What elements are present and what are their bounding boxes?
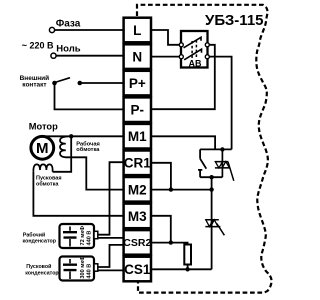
terminal CR1 [124,151,151,176]
wire cap2 to CSR2 [98,245,124,267]
wire Фаза to L [55,29,124,31]
capacitor C1 (run) box [60,224,98,248]
wire starting coil to M1 junction [53,136,72,172]
terminal M1 [124,124,151,149]
wire M1 motor [42,135,123,137]
svg-text:Рабочий: Рабочий [23,231,45,238]
wire breaker down right [209,57,232,150]
wire contact down to P- [55,85,124,109]
wire top bar of contact/triac [200,148,232,150]
junction: resistor bottom on CS1 wire [185,267,189,271]
dashed enclosure border [137,5,272,293]
svg-text:контакт: контакт [22,81,46,88]
working winding coil [60,136,68,157]
svg-text:M1: M1 [128,129,147,144]
svg-text:L: L [133,23,141,38]
wire bottom bar of contact/triac [200,176,222,178]
wire cap1 to CR1 [98,162,124,235]
capacitor C2 (start) box [60,256,98,281]
junction dot M1/coil [69,134,73,138]
wire L to breaker [151,30,180,45]
wire M2 to triacs [151,189,212,191]
svg-text:CSR2: CSR2 [123,237,151,249]
breaker terminals [179,43,183,47]
node: Фаза terminal circle [49,27,54,32]
svg-text:M3: M3 [128,209,147,224]
breaker AB box [179,31,209,69]
svg-text:Мотор: Мотор [29,122,58,132]
motor M circle [31,136,54,159]
terminal M2 [124,177,151,202]
wire CSR2 to resistor [151,243,188,245]
junction: triac VS1 anode node [220,147,224,151]
terminal CSR2 [124,230,151,255]
svg-text:M2: M2 [128,182,147,197]
wire CR1 to M2 junction [151,163,171,190]
svg-text:Пусковой: Пусковой [26,263,51,270]
wire breaker to P- [151,45,215,109]
wire cap2 to CS1 [95,269,124,271]
external contact switch [52,78,82,86]
junction: CR1 branch on M2 wire [169,187,173,191]
svg-text:УБЗ-115: УБЗ-115 [205,12,264,29]
svg-text:АВ: АВ [189,59,202,69]
svg-text:N: N [132,50,142,65]
terminal N [124,44,151,69]
svg-text:конденсатор: конденсатор [23,239,57,245]
terminal block boxes [124,18,151,282]
svg-text:Фаза: Фаза [56,18,81,29]
node: Ноль terminal circle [51,53,56,58]
terminal P+ [124,71,151,96]
wire resistor bottom [187,265,189,270]
svg-text:CS1: CS1 [124,262,151,277]
terminal CS1 [124,257,151,282]
triac VS1 (upper) [215,149,234,180]
svg-text:72 мкФ: 72 мкФ [80,226,86,246]
svg-text:M: M [36,140,49,157]
resistor R1 [184,245,191,265]
svg-text:300 мкФ: 300 мкФ [80,256,86,279]
svg-text:CR1: CR1 [124,156,151,171]
wire Ноль to N [56,55,124,57]
starting winding coil [33,164,52,171]
svg-text:конденсатор: конденсатор [25,270,59,276]
wire CS1 to lower triac bottom [151,268,212,270]
svg-text:440 В: 440 В [86,231,92,246]
svg-text:~ 220 В: ~ 220 В [22,41,54,51]
breaker linkage dashes [192,40,196,58]
svg-text:обмотка: обмотка [36,180,59,187]
triac VS2 (lower) [205,220,224,236]
terminal M3 [124,204,151,229]
svg-text:P-: P- [131,103,145,118]
wire M1 to contact bar [151,136,215,149]
junction: M3 branch on CSR2 wire [169,240,173,244]
wire node to lower triac [211,177,213,269]
svg-text:P+: P+ [129,76,146,91]
terminal P- [124,97,151,122]
junction: node on M2 wire to triacs [209,187,213,191]
svg-text:440 В: 440 В [86,264,92,279]
svg-text:Ноль: Ноль [56,44,80,55]
wire M3 to CSR2 junction [151,216,171,243]
relay contact (upper) [198,149,206,177]
wire starting coil to M3 [33,172,123,216]
wire working coil bottom to M2 [65,157,123,189]
breaker blades [184,37,202,60]
svg-text:обмотка: обмотка [76,146,100,153]
terminal L [124,18,151,43]
junction: contact/triac VS1 cathode bar [209,175,213,179]
wire N to breaker [151,56,180,58]
wire cap1 to CSR2 [95,237,124,239]
wire contact to P+ [82,82,124,84]
